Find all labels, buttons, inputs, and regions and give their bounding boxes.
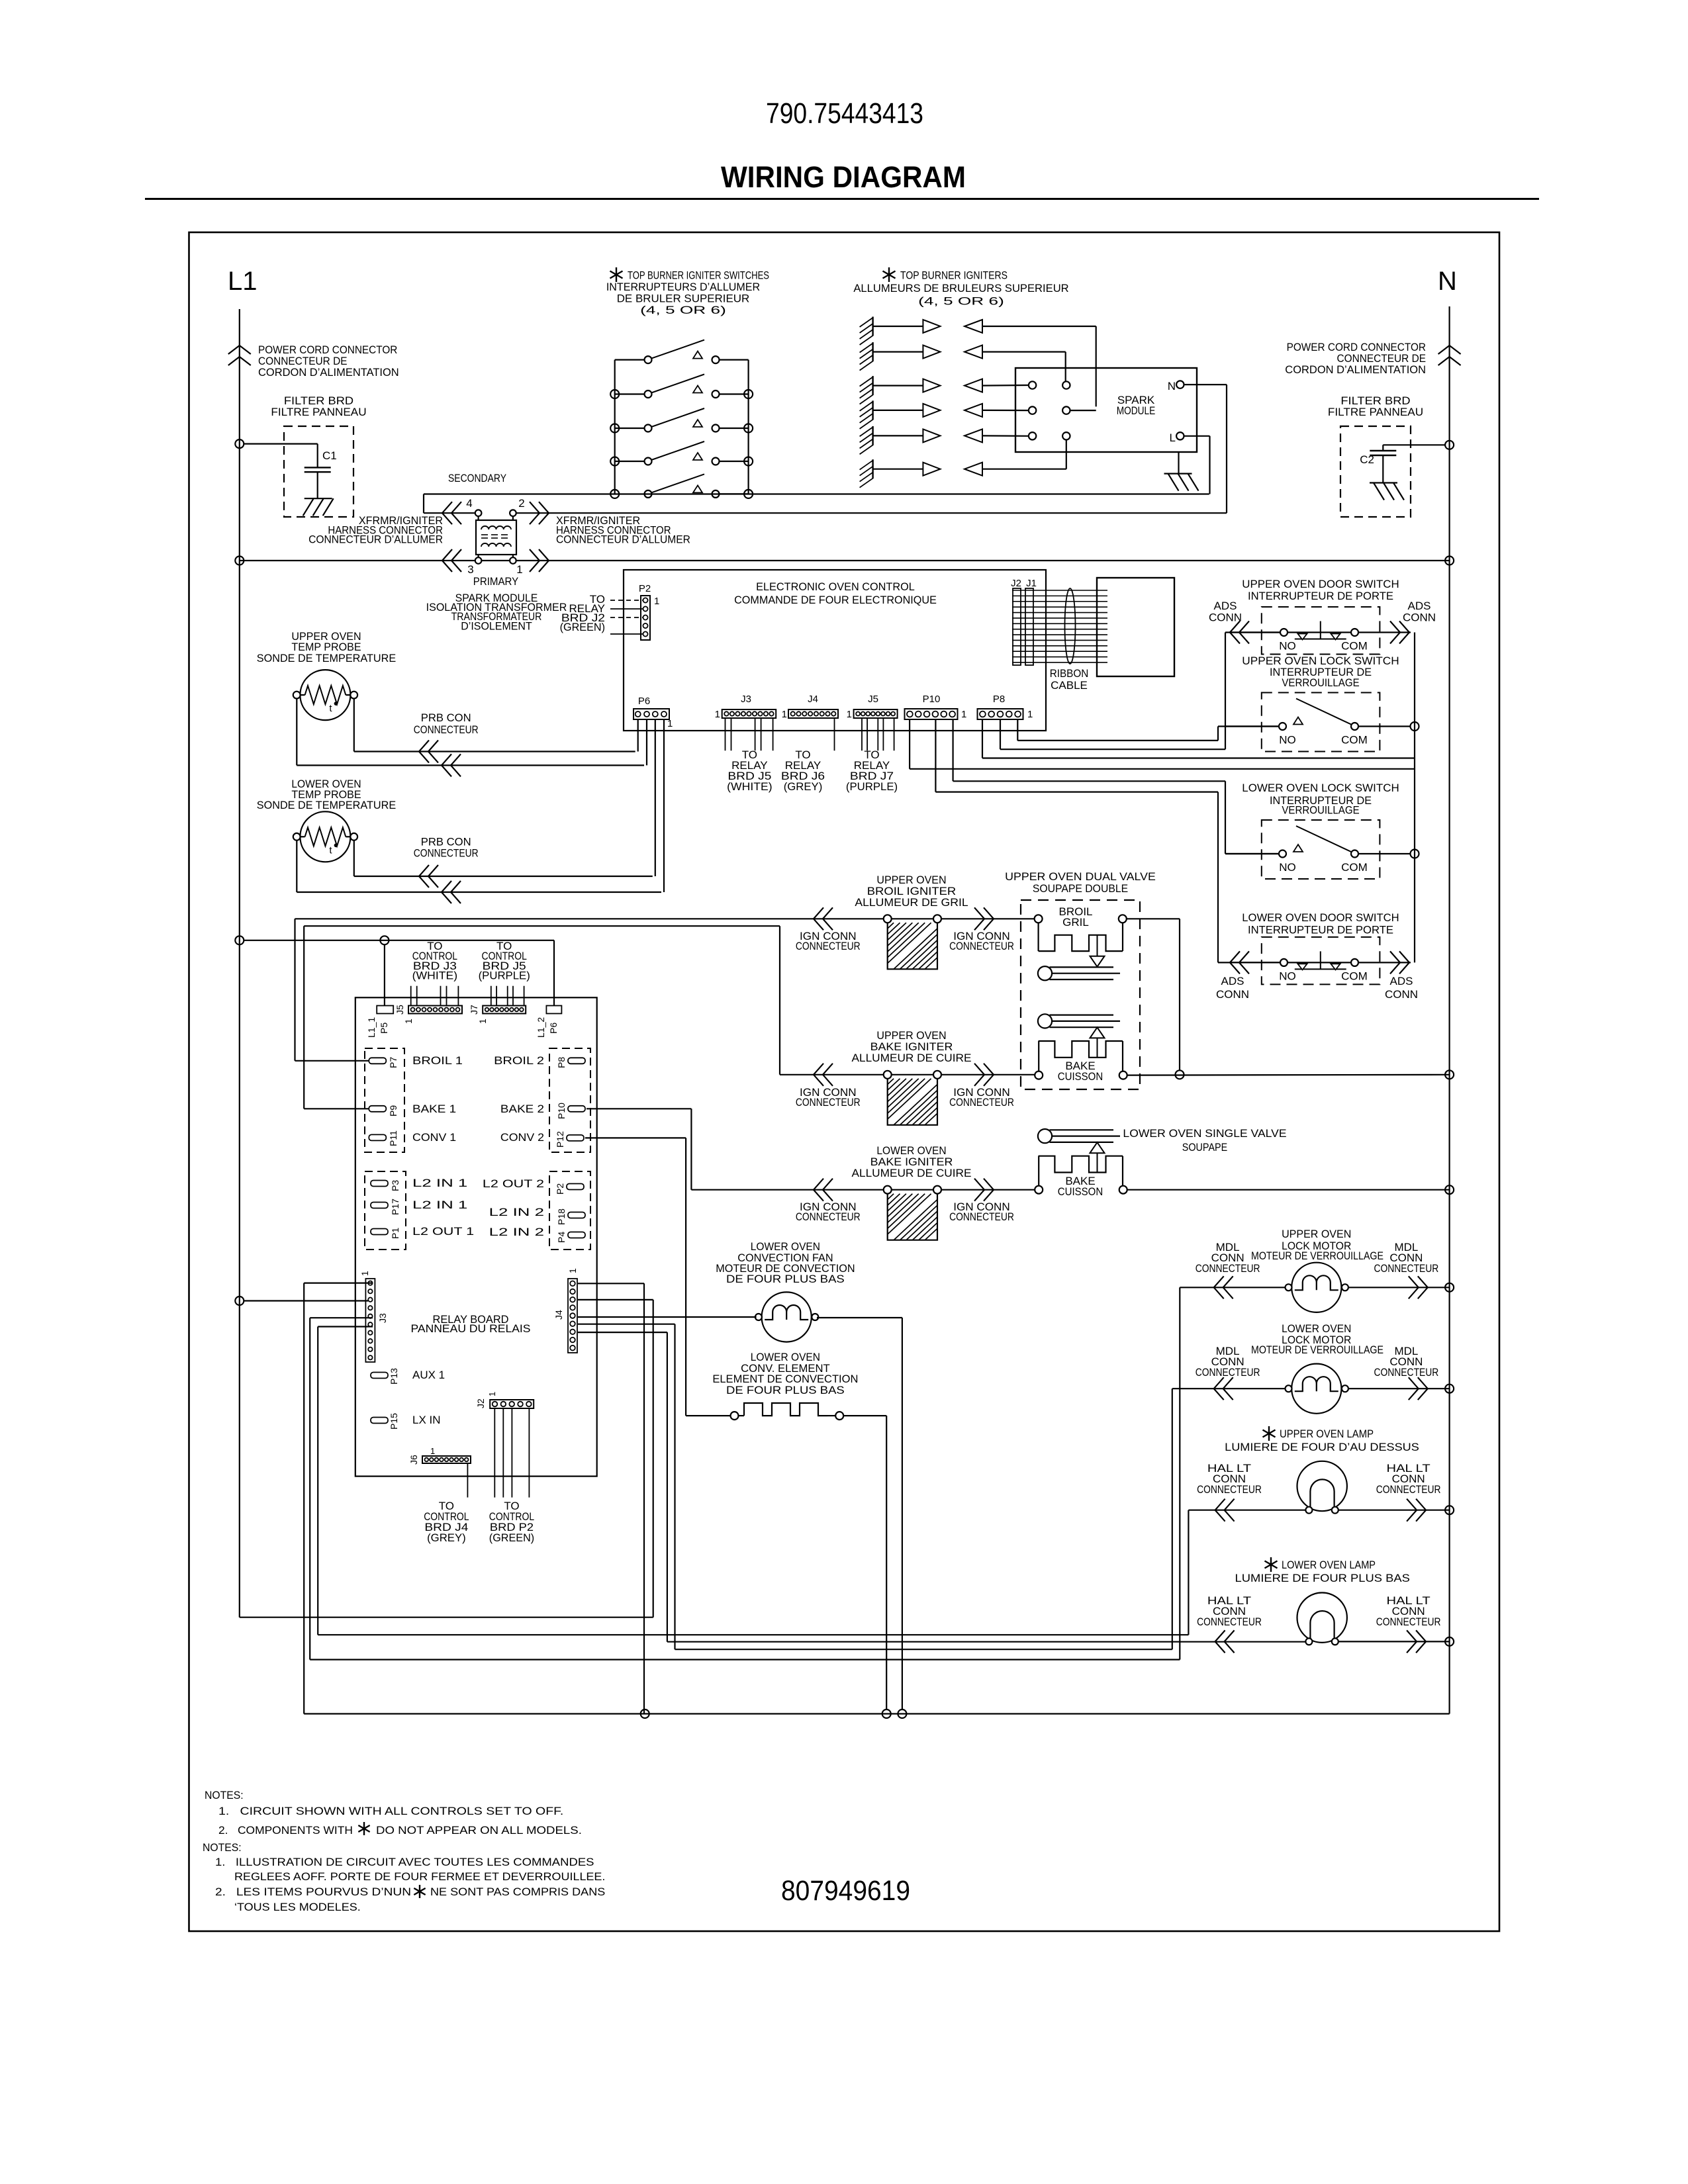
svg-text:1: 1 xyxy=(430,1446,435,1456)
wire J3 pin5 to motor1 xyxy=(310,1317,373,1318)
node junction L1-C1 xyxy=(235,439,244,448)
svg-text:ALLUMEUR DE CUIRE: ALLUMEUR DE CUIRE xyxy=(852,1167,972,1179)
connector HAL LT upper (chevrons) xyxy=(1215,1499,1225,1522)
motor lower oven lock xyxy=(1291,1364,1341,1414)
connector J3 relay xyxy=(365,1279,375,1362)
connector P4 xyxy=(568,1232,585,1238)
svg-text:CONNECTEUR D’ALLUMER: CONNECTEUR D’ALLUMER xyxy=(556,533,690,546)
node switch bus junction right xyxy=(744,490,753,498)
wire primary xyxy=(240,560,475,561)
connector P5 relay xyxy=(377,1006,393,1014)
svg-text:P11: P11 xyxy=(388,1130,399,1146)
wire P12 conv2 to element xyxy=(585,1137,686,1138)
svg-text:1. CIRCUIT SHOWN WITH ALL CO: 1. CIRCUIT SHOWN WITH ALL CONTROLS SET T… xyxy=(218,1805,563,1817)
connector P18 xyxy=(568,1212,585,1218)
spark module pin L xyxy=(1176,432,1184,439)
svg-text:NE SONT PAS COMPRIS DANS: NE SONT PAS COMPRIS DANS xyxy=(430,1886,605,1898)
capacitor C2 xyxy=(1370,450,1396,451)
svg-text:L2 IN 2: L2 IN 2 xyxy=(489,1226,544,1238)
svg-text:C2: C2 xyxy=(1360,453,1374,466)
svg-text:P18: P18 xyxy=(556,1208,567,1225)
svg-text:P15: P15 xyxy=(389,1413,399,1430)
svg-text:CONN: CONN xyxy=(1216,988,1249,1001)
svg-text:L2 OUT 1: L2 OUT 1 xyxy=(412,1225,474,1238)
svg-text:(WHITE): (WHITE) xyxy=(412,970,457,982)
svg-text:1: 1 xyxy=(487,1392,497,1396)
svg-text:GRIL: GRIL xyxy=(1062,916,1089,929)
node switch bus junction right xyxy=(744,424,753,433)
svg-text:J5: J5 xyxy=(395,1005,405,1015)
svg-text:BAKE 1: BAKE 1 xyxy=(412,1103,456,1115)
connector J2 relay xyxy=(490,1400,534,1408)
wire P7 broil1 loop xyxy=(295,1060,369,1062)
temp probe lower xyxy=(300,811,350,862)
svg-text:COM: COM xyxy=(1341,861,1368,874)
wire upper lamp left xyxy=(1188,1510,1305,1511)
node switch bus junction right xyxy=(744,457,753,466)
wire P8 pin1 to upper lock NO xyxy=(1017,719,1018,741)
svg-text:J4: J4 xyxy=(808,694,818,705)
svg-text:(GREY): (GREY) xyxy=(427,1531,466,1544)
connector P13 xyxy=(371,1373,388,1379)
svg-text:CONNECTEUR: CONNECTEUR xyxy=(1376,1615,1441,1628)
svg-text:(WHITE): (WHITE) xyxy=(727,780,772,793)
svg-text:ALLUMEURS DE BRULEURS SUPERIEU: ALLUMEURS DE BRULEURS SUPERIEUR xyxy=(853,282,1068,295)
svg-text:DE FOUR PLUS BAS: DE FOUR PLUS BAS xyxy=(726,1273,845,1285)
svg-text:MOTEUR DE VERROUILLAGE: MOTEUR DE VERROUILLAGE xyxy=(1251,1343,1383,1356)
transformer T1 terminals top xyxy=(475,510,482,516)
connector P10 relay xyxy=(568,1106,585,1112)
svg-text:1: 1 xyxy=(403,1019,414,1024)
svg-text:1: 1 xyxy=(359,1271,370,1276)
label top burner igniters xyxy=(888,267,890,282)
connector J4 eoc xyxy=(788,709,838,718)
svg-text:CONV 2: CONV 2 xyxy=(500,1131,544,1144)
svg-text:1. ILLUSTRATION DE CIRCUIT A: 1. ILLUSTRATION DE CIRCUIT AVEC TOUTES L… xyxy=(215,1856,594,1868)
node junction lamp2 N xyxy=(1445,1637,1454,1646)
svg-text:ALLUMEUR DE GRIL: ALLUMEUR DE GRIL xyxy=(855,896,968,909)
svg-text:(PURPLE): (PURPLE) xyxy=(846,780,898,793)
transformer T1 terminals bottom xyxy=(475,557,482,564)
svg-text:807949619: 807949619 xyxy=(781,1875,910,1907)
svg-text:CONNECTEUR: CONNECTEUR xyxy=(1196,1366,1260,1379)
connector P6 relay xyxy=(546,1006,561,1014)
svg-text:FILTRE PANNEAU: FILTRE PANNEAU xyxy=(1328,406,1423,418)
svg-text:REGLEES AOFF. PORTE DE FOUR FE: REGLEES AOFF. PORTE DE FOUR FERMEE ET DE… xyxy=(234,1870,605,1883)
svg-text:SONDE DE TEMPERATURE: SONDE DE TEMPERATURE xyxy=(257,652,396,664)
wire igniter row1 xyxy=(982,326,1096,327)
svg-text:J3: J3 xyxy=(741,694,751,705)
svg-text:CONNECTEUR: CONNECTEUR xyxy=(1196,1262,1260,1275)
svg-text:COMMANDE DE FOUR ELECTRONIQUE: COMMANDE DE FOUR ELECTRONIQUE xyxy=(734,594,937,606)
wire bake igniter to valve xyxy=(941,1074,1035,1075)
power cord connector L1 (chevrons) xyxy=(228,345,251,354)
svg-text:(4, 5 OR 6): (4, 5 OR 6) xyxy=(918,295,1004,308)
svg-text:DE FOUR PLUS BAS: DE FOUR PLUS BAS xyxy=(726,1384,845,1396)
filter board box right xyxy=(1340,426,1411,517)
svg-text:1: 1 xyxy=(516,563,522,576)
svg-text:CONNECTEUR: CONNECTEUR xyxy=(1374,1262,1439,1275)
valve lower single xyxy=(1038,1129,1052,1143)
svg-text:2. LES ITEMS POURVUS D’NUN: 2. LES ITEMS POURVUS D’NUN xyxy=(215,1886,411,1898)
svg-text:J6: J6 xyxy=(408,1455,419,1465)
node junction motor2 N xyxy=(1445,1385,1454,1393)
svg-text:(GREY): (GREY) xyxy=(784,780,823,793)
igniter lower bake xyxy=(884,1186,892,1194)
svg-text:‘TOUS LES MODELES.: ‘TOUS LES MODELES. xyxy=(234,1901,361,1913)
svg-text:LOWER OVEN LAMP: LOWER OVEN LAMP xyxy=(1282,1559,1376,1571)
connector P17 xyxy=(371,1203,388,1208)
wire igniter row3 xyxy=(982,385,1029,387)
ground chassis C1 xyxy=(305,498,332,499)
relay board box xyxy=(355,997,597,1476)
wire neutral bottom bus xyxy=(304,1713,1449,1714)
wire secondary top xyxy=(424,493,1209,494)
wire L1 bus xyxy=(239,309,240,1617)
connector HAL LT lower (chevrons) xyxy=(1215,1630,1225,1653)
wire J3 pin1 to neutral bus xyxy=(304,1282,373,1283)
switch SW2 top burner xyxy=(615,393,645,394)
igniter electrode row 2 xyxy=(872,342,873,361)
svg-text:LOWER OVEN LOCK SWITCH: LOWER OVEN LOCK SWITCH xyxy=(1242,782,1399,794)
wire P10 bake2 to lower igniter xyxy=(586,1108,691,1109)
svg-text:J7: J7 xyxy=(469,1005,479,1015)
wire J5 stubs xyxy=(861,718,863,751)
wires to relay brd J2 leaders xyxy=(610,600,643,601)
wire spark col2 mid stub xyxy=(1070,410,1096,411)
node junction broil-bake out xyxy=(1176,1070,1184,1079)
svg-text:NO: NO xyxy=(1279,861,1296,874)
wire broil igniter to valve xyxy=(941,918,1035,919)
igniter electrode row 1 xyxy=(872,317,873,336)
wire spark L to secondary xyxy=(1184,435,1210,437)
svg-text:CUISSON: CUISSON xyxy=(1058,1070,1103,1083)
wire broil valve out xyxy=(1127,918,1180,919)
svg-text:P4: P4 xyxy=(556,1232,567,1243)
connector PRB lower (chevrons) xyxy=(419,865,429,887)
svg-text:NOTES:: NOTES: xyxy=(205,1789,244,1801)
svg-text:FILTRE PANNEAU: FILTRE PANNEAU xyxy=(271,406,366,418)
connector MDL lower (chevrons) xyxy=(1214,1377,1224,1400)
connector P6 eoc xyxy=(633,709,669,719)
svg-text:TOP BURNER IGNITER SWITCHES: TOP BURNER IGNITER SWITCHES xyxy=(628,269,769,282)
wire upper lock motor left xyxy=(1180,1287,1285,1288)
svg-text:CONNECTEUR: CONNECTEUR xyxy=(414,846,479,859)
valve broil section xyxy=(1035,915,1043,923)
svg-text:P3: P3 xyxy=(390,1180,400,1191)
ribbon cable xyxy=(1012,590,1107,591)
connector xfrmr harness bottom-right (chevrons) xyxy=(530,549,539,572)
svg-text:WIRING DIAGRAM: WIRING DIAGRAM xyxy=(721,160,966,194)
svg-text:COM: COM xyxy=(1341,734,1368,747)
motor upper oven lock xyxy=(1291,1263,1341,1312)
wire J3 stubs xyxy=(725,718,726,751)
svg-text:BAKE 2: BAKE 2 xyxy=(500,1103,544,1115)
svg-text:P5: P5 xyxy=(379,1023,389,1034)
svg-text:C1: C1 xyxy=(322,449,337,462)
svg-text:LUMIERE DE FOUR PLUS BAS: LUMIERE DE FOUR PLUS BAS xyxy=(1235,1572,1410,1584)
wire J2 relay pins down xyxy=(494,1408,495,1498)
border frame xyxy=(189,232,1500,1931)
igniter upper broil xyxy=(884,915,892,923)
wire lower lamp left xyxy=(667,1641,1306,1643)
svg-text:LOWER OVEN SINGLE VALVE: LOWER OVEN SINGLE VALVE xyxy=(1123,1127,1286,1140)
svg-text:P7: P7 xyxy=(388,1057,399,1068)
svg-text:P8: P8 xyxy=(993,694,1005,705)
wire bake valve out to N xyxy=(1127,1074,1450,1076)
svg-text:L2 OUT 2: L2 OUT 2 xyxy=(483,1177,544,1190)
power cord connector N (chevrons) xyxy=(1438,345,1461,354)
wire upper probe left lead xyxy=(296,699,297,766)
connector P8 eoc xyxy=(978,709,1023,719)
upper dual valve box xyxy=(1021,900,1140,1089)
wire lower lock motor right xyxy=(1348,1388,1450,1389)
svg-text:D’ISOLEMENT: D’ISOLEMENT xyxy=(461,620,532,633)
connector J3 eoc xyxy=(722,709,776,718)
wire switch left bus xyxy=(614,360,616,494)
svg-text:BROIL 1: BROIL 1 xyxy=(412,1054,463,1067)
wire N bus xyxy=(1449,306,1450,1714)
node switch bus junction right xyxy=(744,390,753,398)
svg-text:CONV 1: CONV 1 xyxy=(412,1131,456,1144)
node switch bus junction left xyxy=(610,457,619,466)
node junction element bus xyxy=(882,1709,891,1718)
svg-text:UPPER OVEN: UPPER OVEN xyxy=(1282,1228,1351,1240)
node junction lower lock COM xyxy=(1411,850,1419,858)
svg-text:UPPER OVEN DOOR SWITCH: UPPER OVEN DOOR SWITCH xyxy=(1242,578,1399,590)
svg-text:CUISSON: CUISSON xyxy=(1058,1185,1103,1198)
svg-text:CONNECTEUR: CONNECTEUR xyxy=(1374,1366,1439,1379)
wire J4 stub xyxy=(834,718,835,751)
wire J7 relay stubs xyxy=(491,986,492,1006)
wire lower igniter to valve xyxy=(941,1189,1035,1191)
connector J2 strip xyxy=(1013,588,1021,665)
wire P6 pin4 xyxy=(637,719,639,752)
label lower oven lamp xyxy=(1270,1557,1272,1572)
label upper oven lamp xyxy=(1268,1426,1270,1441)
svg-text:CORDON D’ALIMENTATION: CORDON D’ALIMENTATION xyxy=(258,366,399,379)
svg-text:INTERRUPTEUR DE PORTE: INTERRUPTEUR DE PORTE xyxy=(1248,924,1393,936)
svg-text:INTERRUPTEUR DE PORTE: INTERRUPTEUR DE PORTE xyxy=(1248,590,1393,602)
wire spark N to bus xyxy=(1184,384,1227,385)
wire secondary 2 to spark N xyxy=(516,512,1227,514)
transformer T1 xyxy=(476,520,516,555)
svg-text:J1: J1 xyxy=(1026,578,1037,589)
connector P3 xyxy=(371,1181,388,1187)
filter board box left xyxy=(284,426,353,517)
wire igniter row6 xyxy=(982,469,1066,470)
svg-text:J4: J4 xyxy=(553,1310,564,1320)
svg-text:CONNECTEUR: CONNECTEUR xyxy=(414,723,479,736)
svg-text:PANNEAU DU RELAIS: PANNEAU DU RELAIS xyxy=(411,1322,531,1335)
connector P10 eoc xyxy=(905,709,958,719)
svg-text:SECONDARY: SECONDARY xyxy=(448,472,506,484)
svg-text:CONNECTEUR D’ALLUMER: CONNECTEUR D’ALLUMER xyxy=(308,533,443,546)
igniter electrode row 4 xyxy=(872,400,873,420)
svg-text:DO NOT APPEAR ON ALL MODELS.: DO NOT APPEAR ON ALL MODELS. xyxy=(376,1824,582,1837)
capacitor C1 xyxy=(305,467,331,468)
svg-text:P12: P12 xyxy=(555,1131,565,1148)
svg-text:VERROUILLAGE: VERROUILLAGE xyxy=(1282,803,1359,816)
wire P6 pin2 xyxy=(655,719,656,876)
svg-text:P8: P8 xyxy=(556,1057,567,1068)
connector xfrmr harness top-right (chevrons) xyxy=(530,502,539,524)
connector J6 relay xyxy=(422,1456,471,1463)
svg-text:(GREEN): (GREEN) xyxy=(560,621,605,633)
svg-text:P9: P9 xyxy=(388,1105,399,1116)
wire J4 pin1 to neutral bus xyxy=(578,1283,644,1284)
svg-text:CONN: CONN xyxy=(1403,612,1436,624)
element heating lower oven xyxy=(731,1412,739,1420)
svg-text:ALLUMEUR DE CUIRE: ALLUMEUR DE CUIRE xyxy=(852,1052,972,1064)
wire element out xyxy=(843,1415,886,1416)
connector J5 relay xyxy=(408,1006,462,1014)
svg-text:ADS: ADS xyxy=(1214,600,1237,612)
connector xfrmr harness top-left (chevrons) xyxy=(442,502,452,524)
wire P8 pin5 to COM bus xyxy=(982,719,983,758)
svg-text:2: 2 xyxy=(518,497,524,510)
svg-text:J5: J5 xyxy=(868,694,878,705)
wire secondary jog xyxy=(423,494,424,514)
wire P8 pin3 to upper door NO xyxy=(1000,719,1001,749)
svg-text:P6: P6 xyxy=(548,1023,559,1034)
svg-text:MOTEUR DE VERROUILLAGE: MOTEUR DE VERROUILLAGE xyxy=(1251,1250,1383,1262)
node junction L1-primary xyxy=(235,557,244,565)
svg-text:UPPER OVEN LAMP: UPPER OVEN LAMP xyxy=(1280,1428,1374,1440)
connector P2 xyxy=(641,596,650,640)
svg-text:P2: P2 xyxy=(639,583,651,594)
wire upper lock motor right xyxy=(1348,1287,1450,1288)
igniter electrode row 6 xyxy=(872,459,873,478)
wire J4 pin5 to fan xyxy=(578,1316,757,1318)
relay left L2 box xyxy=(365,1171,406,1250)
spark module U1 box xyxy=(1015,368,1197,452)
connector P7 xyxy=(369,1058,386,1064)
svg-text:CONNECTEUR: CONNECTEUR xyxy=(796,1210,861,1223)
spark module pin N xyxy=(1176,381,1184,388)
node switch bus junction left xyxy=(610,390,619,398)
node junction upper lock COM xyxy=(1411,722,1419,731)
svg-text:1: 1 xyxy=(715,709,720,720)
svg-text:2. COMPONENTS WITH: 2. COMPONENTS WITH xyxy=(218,1824,353,1837)
label top burner igniter switches xyxy=(616,267,617,282)
svg-text:NO: NO xyxy=(1279,640,1296,653)
motor convection fan xyxy=(762,1292,812,1342)
svg-text:UPPER OVEN DUAL VALVE: UPPER OVEN DUAL VALVE xyxy=(1005,870,1156,883)
connector P15 xyxy=(371,1418,388,1424)
svg-text:1: 1 xyxy=(567,1268,578,1273)
svg-text:RIBBON: RIBBON xyxy=(1050,667,1089,680)
svg-text:1: 1 xyxy=(1027,709,1033,720)
node junction J4pin1 bus xyxy=(641,1709,649,1718)
svg-text:N: N xyxy=(1438,267,1457,296)
svg-text:1: 1 xyxy=(782,709,787,720)
svg-text:(GREEN): (GREEN) xyxy=(489,1531,534,1544)
wire J4 pin6 to motor2 xyxy=(578,1324,675,1325)
svg-text:CONNECTEUR: CONNECTEUR xyxy=(949,1096,1014,1109)
svg-text:INTERRUPTEURS D’ALLUMER: INTERRUPTEURS D’ALLUMER xyxy=(606,281,760,293)
node junction fan bus xyxy=(898,1709,906,1718)
wire switch right bus xyxy=(747,360,749,494)
svg-text:N: N xyxy=(1168,380,1176,392)
svg-text:4: 4 xyxy=(466,497,472,510)
svg-text:J3: J3 xyxy=(377,1313,388,1323)
wire J4 pin3 to L1 bus xyxy=(578,1299,653,1300)
svg-text:L2 IN 2: L2 IN 2 xyxy=(489,1206,544,1218)
connector P9 xyxy=(369,1106,386,1112)
spark module pins left xyxy=(1029,381,1036,388)
connector J5 eoc xyxy=(854,709,898,718)
connector P8 relay xyxy=(568,1058,585,1064)
ground chassis spark module xyxy=(1178,452,1179,474)
wire to C2 xyxy=(1383,444,1445,445)
svg-text:P6: P6 xyxy=(638,696,650,707)
wire P10 pin6 to lower lock NO xyxy=(952,719,953,781)
svg-text:ADS: ADS xyxy=(1221,975,1244,987)
node junction P5 feed xyxy=(380,936,389,944)
svg-text:1: 1 xyxy=(477,1019,488,1024)
svg-text:CONNECTEUR: CONNECTEUR xyxy=(1197,1615,1262,1628)
wire P6 pin3 xyxy=(646,719,647,765)
svg-text:L2 IN 1: L2 IN 1 xyxy=(412,1177,467,1189)
svg-text:(PURPLE): (PURPLE) xyxy=(479,970,530,982)
wire lower probe right lead xyxy=(353,841,355,876)
wire lower valve out to N xyxy=(1127,1189,1450,1191)
wire L1 to J3 pin3 xyxy=(235,1297,244,1305)
svg-text:NO: NO xyxy=(1279,970,1296,982)
svg-text:ELECTRONIC OVEN CONTROL: ELECTRONIC OVEN CONTROL xyxy=(756,580,915,593)
svg-text:1: 1 xyxy=(667,718,673,729)
wire P10 pin4 to lower door NO xyxy=(935,719,936,792)
svg-text:(4, 5 OR 6): (4, 5 OR 6) xyxy=(640,304,726,316)
wire igniter row2 xyxy=(982,351,1066,352)
svg-text:3: 3 xyxy=(467,563,473,576)
svg-text:L1: L1 xyxy=(228,267,258,296)
wire upper probe right lead xyxy=(353,699,355,752)
svg-text:CONN: CONN xyxy=(1209,612,1242,624)
svg-text:CORDON D’ALIMENTATION: CORDON D’ALIMENTATION xyxy=(1285,363,1426,376)
connector PRB upper (chevrons) xyxy=(419,741,429,763)
temp probe upper xyxy=(300,670,350,720)
node junction bake out N xyxy=(1445,1070,1454,1079)
wire lower lock motor left xyxy=(1172,1388,1286,1389)
svg-text:CONN: CONN xyxy=(1385,988,1418,1001)
svg-text:L1_2: L1_2 xyxy=(536,1017,546,1038)
wire igniter row4 xyxy=(982,410,1029,411)
svg-text:PRB CON: PRB CON xyxy=(421,711,471,724)
wire J3 pin6 to lamp1 xyxy=(318,1326,373,1327)
svg-text:P1: P1 xyxy=(390,1228,400,1239)
svg-text:P13: P13 xyxy=(389,1368,399,1385)
svg-text:CONNECTEUR: CONNECTEUR xyxy=(1376,1483,1441,1496)
svg-text:ADS: ADS xyxy=(1390,975,1413,987)
svg-text:CONNECTEUR: CONNECTEUR xyxy=(949,1210,1014,1223)
igniter upper bake xyxy=(884,1071,892,1079)
wire lower lamp right xyxy=(1338,1641,1450,1642)
svg-text:J2: J2 xyxy=(475,1398,486,1408)
svg-text:NOTES:: NOTES: xyxy=(203,1841,242,1854)
svg-text:PRIMARY: PRIMARY xyxy=(473,575,518,588)
wire J4 pin7 to lamp2 xyxy=(578,1332,667,1333)
wire fan out xyxy=(817,1317,902,1318)
svg-text:COM: COM xyxy=(1341,970,1368,982)
wire lower probe left lead xyxy=(296,841,297,892)
svg-text:SOUPAPE: SOUPAPE xyxy=(1182,1141,1227,1154)
svg-text:L2 IN 1: L2 IN 1 xyxy=(412,1199,467,1211)
wire P9 bake1 loop xyxy=(304,1108,369,1109)
relay right output box xyxy=(549,1048,590,1152)
igniter electrode row 3 xyxy=(872,376,873,395)
